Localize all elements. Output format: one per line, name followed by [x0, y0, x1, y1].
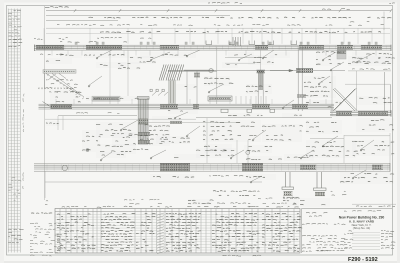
G1 cover plates with rivets: [36, 46, 382, 49]
overall dimension text: [208, 3, 242, 4]
pre-table annotations: [258, 198, 297, 204]
dimension annotation cluster 2: [140, 52, 196, 58]
left dimension line A: [46, 15, 230, 17]
right dim drop: [383, 12, 385, 31]
overall dimension line: [46, 10, 391, 12]
dimension annotation cluster 13: [348, 56, 392, 66]
hanger B label: [331, 191, 347, 195]
second dim text row: [57, 24, 384, 25]
roof girder G1 elevation: [34, 45, 391, 52]
datum leader b: [236, 140, 238, 163]
G3 splice plates: [160, 163, 383, 171]
column C2: [260, 48, 262, 71]
dimension annotation cluster 24: [356, 118, 394, 132]
dimension ticks: [74, 9, 392, 12]
material list entries 3: [136, 213, 156, 251]
strip dark rows b: [8, 229, 23, 243]
dimension annotation cluster 26: [100, 144, 136, 154]
dimension annotation cluster 28: [244, 145, 272, 153]
vertical margin note: [23, 94, 24, 132]
table hatch column: [157, 213, 164, 254]
column C3: [297, 48, 299, 112]
G2 right end detail: [330, 104, 391, 116]
dimension annotation cluster 46: [82, 130, 100, 152]
material list entries 4: [166, 213, 201, 251]
dimension annotation cluster 40: [86, 96, 104, 101]
title block notes paragraph: [302, 235, 348, 251]
right plan dim line b: [344, 135, 390, 137]
stub beam detail: [208, 96, 232, 101]
top dim text row: [89, 17, 392, 18]
left dimension line B: [46, 20, 118, 22]
section mark circle: [62, 165, 67, 170]
section circle small: [246, 151, 250, 155]
material list table: [55, 209, 300, 254]
knee brace annotations: [46, 80, 79, 93]
rail node circle: [209, 69, 213, 73]
dimension annotation cluster 38: [222, 62, 238, 68]
title block top rule: [302, 208, 393, 210]
rivet list rows: [30, 223, 62, 256]
table header labels: [62, 206, 299, 207]
small node circle: [86, 148, 90, 152]
bottom chord G3 plan: [34, 163, 390, 172]
dimension annotation cluster 45: [156, 136, 190, 144]
dimension annotation cluster 42: [176, 84, 196, 90]
dimension annotation cluster 47: [152, 116, 180, 122]
title block dim row: [352, 203, 396, 205]
short dimension droppers: [52, 51, 376, 105]
leader annotation row left: [60, 37, 151, 42]
revision strip entries: [9, 16, 22, 40]
erection note: [124, 199, 162, 204]
revision strip header: [8, 10, 20, 13]
dimension annotation cluster 41: [120, 96, 136, 101]
beam end label: [34, 38, 64, 39]
dim text right: [322, 8, 350, 9]
dimension annotation cluster 20: [282, 113, 302, 118]
material list entries 5: [212, 213, 260, 251]
panel leader lines: [44, 28, 391, 44]
panel spacing line: [46, 27, 390, 29]
dimension annotation cluster 34: [46, 58, 72, 64]
dimension annotation cluster 53: [283, 196, 299, 206]
right dim line: [345, 83, 390, 85]
left panel datum line: [45, 118, 196, 120]
channel detail a: [92, 96, 120, 101]
vertical margin note 2: [22, 173, 25, 190]
date line: [306, 212, 327, 215]
brace lacing ticks: [47, 74, 84, 99]
material list entries 1: [57, 214, 96, 252]
lattice brace left: [159, 65, 184, 81]
title block bottom row: [316, 249, 330, 252]
G1 clip angles: [75, 42, 377, 45]
dimension annotation cluster 12: [304, 76, 336, 98]
hanger post B: [316, 172, 318, 188]
knee brace detail: [38, 70, 84, 97]
revision record strip: [8, 9, 20, 253]
dimension annotation cluster 9: [118, 62, 140, 70]
dimension annotation cluster 22: [306, 120, 342, 134]
panel text baseline: [46, 33, 390, 35]
bracket below G1 right: [337, 50, 346, 59]
dimension annotation cluster 51: [356, 96, 390, 105]
svg-text:(Shop No. 41): (Shop No. 41): [353, 226, 370, 230]
detail b clips: [150, 89, 164, 91]
crane girder G2 elevation: [39, 102, 335, 110]
left end vertical: [44, 172, 46, 198]
dimension annotation cluster 37: [130, 56, 156, 64]
dimension annotation cluster 25: [352, 140, 394, 156]
dimension annotation cluster 27: [196, 148, 236, 158]
under-chord text row: [209, 175, 243, 176]
stiffener note line: [348, 70, 391, 72]
dimension annotation cluster 32: [204, 144, 232, 153]
left margin note: [45, 201, 48, 205]
dimension annotation cluster 52: [320, 100, 342, 106]
dimension annotation cluster 8: [96, 62, 126, 68]
title block divider: [301, 209, 303, 254]
right vertical a: [384, 72, 386, 113]
dimension annotation cluster 43: [46, 121, 60, 126]
dimension annotation cluster 6: [352, 52, 394, 64]
column C1: [138, 98, 148, 144]
top margin text left: [45, 6, 69, 9]
dimension annotation cluster 39: [270, 52, 290, 58]
rivet list header: [31, 212, 52, 215]
mid faint vertical: [127, 50, 129, 96]
strip dark rows a: [8, 39, 22, 47]
datum leader a: [206, 118, 208, 163]
dimension annotation cluster 29: [150, 174, 194, 180]
dimension annotation cluster 44: [112, 132, 136, 146]
dimension annotation cluster 35: [188, 199, 212, 205]
field rivet note: [213, 191, 259, 196]
title block spec paragraph: [309, 215, 322, 218]
dimension annotation cluster 5: [316, 50, 340, 66]
dimension annotation cluster 15: [168, 108, 198, 114]
approval signature rows: [344, 231, 395, 250]
left datum line: [58, 115, 137, 117]
rail datum line: [196, 117, 332, 119]
dimension annotation cluster 14: [306, 100, 332, 110]
mid faint vertical 2: [109, 52, 111, 104]
dimension annotation cluster 1: [84, 52, 130, 58]
dimension annotation cluster 54: [246, 174, 276, 180]
hanger post A: [285, 172, 287, 187]
G3 stitch rivets: [47, 164, 388, 170]
dimension annotation cluster 36: [60, 52, 82, 58]
panel verticals below girder 2: [57, 116, 59, 130]
dimension annotation cluster 3: [228, 52, 254, 58]
dimension annotation cluster 17: [140, 124, 170, 146]
girder bottom flange line: [45, 181, 262, 183]
dimension annotation cluster 16: [96, 122, 146, 138]
below table row: [223, 255, 262, 256]
dimension annotation cluster 21: [262, 124, 302, 142]
dimension annotation cluster 50: [300, 198, 330, 207]
field rivet note 2: [217, 203, 251, 207]
G2 cover plates: [51, 105, 309, 108]
purlin seat hooks: [206, 37, 297, 46]
left dim vertical: [44, 6, 46, 200]
dimension annotation cluster 11: [246, 84, 272, 94]
svg-text:F290 - 5192: F290 - 5192: [348, 257, 378, 263]
dimension annotation cluster 18: [203, 120, 261, 142]
G1 stitch rivets: [46, 46, 386, 50]
dim line mid panel: [140, 121, 240, 123]
top margin text right: [389, 2, 395, 5]
dimension annotation cluster 48: [96, 152, 126, 158]
annotation leader lines: [88, 50, 374, 183]
arrow leader mid: [270, 69, 293, 71]
right plan dim line a: [310, 138, 344, 140]
dim line between girders: [225, 57, 262, 59]
leader annotation row: [100, 31, 381, 32]
material list entries 2: [101, 213, 135, 251]
right vertical b: [389, 84, 391, 113]
lattice brace right: [333, 88, 357, 111]
G2 right cover plates: [336, 112, 388, 115]
material list entries 6: [262, 213, 302, 251]
splice plate shading: [36, 46, 263, 171]
G2 bearing stiffeners: [221, 109, 275, 112]
dimension annotation cluster 23: [306, 140, 356, 158]
dimension annotation cluster 4: [248, 55, 274, 65]
dimension annotation cluster 49: [174, 154, 200, 160]
girder end stiffener comb: [236, 96, 266, 104]
dimension annotation cluster 19: [228, 113, 262, 118]
sect label: [133, 148, 148, 151]
dimension annotation cluster 10: [204, 76, 230, 86]
crane rail line: [168, 69, 217, 71]
dimension annotation cluster 7: [50, 90, 80, 104]
bay column line: [216, 48, 218, 105]
beam end note: [40, 53, 63, 56]
channel detail b: [152, 92, 168, 96]
dimension annotation cluster 33: [284, 154, 314, 161]
revision strip entries lower: [9, 178, 22, 201]
dimension annotation cluster 30: [246, 156, 282, 163]
dimension annotation cluster 31: [340, 172, 394, 184]
